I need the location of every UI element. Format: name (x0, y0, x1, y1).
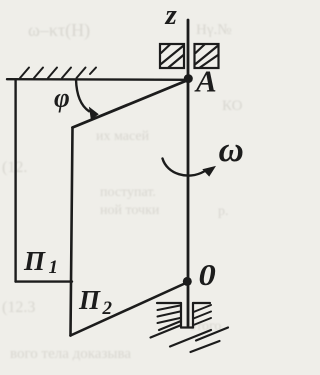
svg-text:их масей: их масей (96, 129, 150, 144)
svg-text:0: 0 (199, 259, 216, 293)
plane P1 bottom edge (16, 280, 72, 282)
support hatch left strip (158, 306, 181, 324)
svg-text:П: П (23, 246, 46, 276)
svg-text:1: 1 (49, 257, 59, 278)
plane P2 top edge (73, 80, 189, 128)
svg-text:(12.3: (12.3 (2, 299, 35, 316)
support hatch right strip (194, 305, 212, 325)
axis z (187, 20, 190, 326)
bleed-through ghost text (2, 20, 243, 362)
svg-text:вого тела доказыва: вого тела доказыва (10, 346, 131, 362)
plane P2 left edge (71, 128, 73, 336)
plane P2 bottom edge (71, 282, 189, 336)
bottom support: ground line with pocket (157, 303, 210, 328)
svg-text:ω–κτ(Η): ω–κτ(Η) (28, 20, 90, 41)
bearing square left (160, 44, 184, 68)
bearing square right (195, 44, 219, 68)
svg-text:КО: КО (222, 98, 243, 114)
svg-text:2: 2 (102, 298, 113, 319)
ceiling hatch (20, 68, 96, 79)
phi arc arrow (76, 80, 89, 112)
svg-text:Ηγ.№: Ηγ.№ (196, 22, 232, 38)
plane P1 top edge / wire to A (7, 78, 188, 81)
node O dot (183, 277, 192, 286)
omega arc arrow (163, 159, 205, 176)
svg-text:поступат.: поступат. (100, 185, 156, 200)
svg-text:z: z (165, 0, 178, 31)
svg-text:ω: ω (219, 130, 244, 169)
support hatch bottom (151, 321, 229, 352)
node A dot (184, 74, 193, 83)
svg-text:ной точки: ной точки (100, 203, 160, 218)
svg-text:A: A (194, 64, 217, 99)
svg-text:φ: φ (54, 82, 70, 112)
svg-text:р.: р. (218, 204, 229, 219)
svg-text:П: П (78, 285, 101, 315)
plane P1 left edge (14, 79, 16, 281)
